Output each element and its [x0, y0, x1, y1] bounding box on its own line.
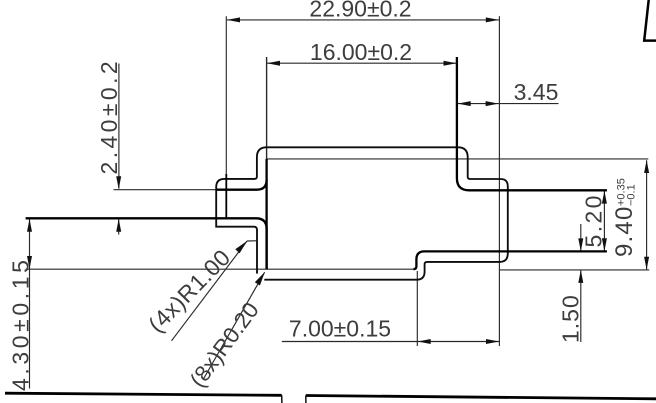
svg-text:7.00±0.15: 7.00±0.15: [289, 316, 391, 342]
svg-text:1.50: 1.50: [558, 294, 584, 343]
svg-text:9.40: 9.40: [611, 205, 638, 257]
svg-text:5.20: 5.20: [581, 193, 607, 247]
svg-text:−0.1: −0.1: [626, 184, 638, 206]
svg-text:2.40±0.2: 2.40±0.2: [96, 58, 122, 175]
svg-text:22.90±0.2: 22.90±0.2: [309, 0, 411, 22]
svg-text:16.00±0.2: 16.00±0.2: [310, 39, 412, 65]
svg-text:4.30±0.15: 4.30±0.15: [8, 256, 34, 391]
svg-text:3.45: 3.45: [514, 79, 559, 105]
